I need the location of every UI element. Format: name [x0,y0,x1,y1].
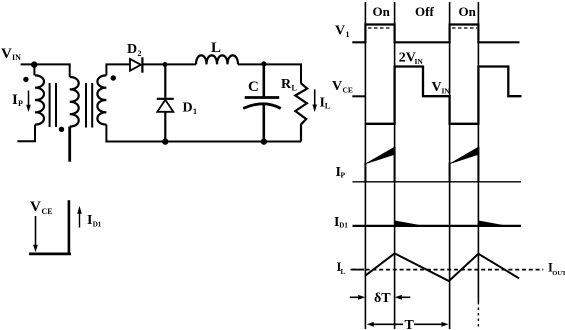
IP ramp 2 wedge [450,147,478,164]
label ID1 sketch [87,213,102,229]
IP ramp 1 fall [394,147,396,182]
svg-text:V: V [432,80,442,95]
wire secondary top lead [106,64,130,75]
svg-text:Off: Off [415,4,434,19]
wire D1 anode lead [164,65,166,98]
waveform VCE [365,67,521,124]
diode D1 [157,99,174,112]
node VIN junction [31,61,37,67]
resistor RL [295,83,307,141]
label V1 [335,24,350,40]
core lines right [85,83,93,128]
label IL [337,260,346,276]
label IL load [320,96,331,111]
svg-text:V: V [1,46,12,62]
core lines left [49,83,57,127]
svg-text:L: L [292,84,297,93]
svg-text:On: On [373,4,391,19]
label D1 [183,101,198,117]
svg-text:IN: IN [12,53,21,62]
svg-text:CE: CE [343,86,353,95]
ID1 decay wedge 2 [479,221,503,226]
dimension deltaT left arrow [350,295,365,300]
svg-text:OUT: OUT [552,270,565,277]
node after D2 [163,62,168,67]
svg-text:IN: IN [415,57,424,66]
arrow VCE down [33,216,38,252]
dashed scan line under V1 pulse 2 [452,27,477,29]
ID1 decay wedge 1 [395,221,420,226]
wire L to RL [238,64,301,83]
waveform V1 [352,25,519,43]
grid line 4 [477,2,479,328]
label ID1 [334,215,348,230]
svg-text:2: 2 [138,49,142,58]
wire D2 to L [142,63,196,65]
svg-text:D1: D1 [93,221,102,229]
axis corner VCE/ID1 sketch [29,200,71,254]
dashed scan line under V1 pulse 1 [368,27,392,29]
dimension T left arrowhead [367,322,403,327]
transformer T1 secondary winding [97,75,106,124]
label VCE [332,79,353,95]
IP ramp 1 rise [364,163,366,182]
IOUT dashed level line [352,269,543,271]
capacitor C [243,98,281,109]
svg-text:R: R [281,77,292,92]
label RL [281,77,297,93]
IP ramp 2 rise [449,163,451,182]
node C bottom [261,138,267,144]
grid line 2 [394,2,396,329]
middle winding polarity dot [59,127,64,132]
svg-text:P: P [341,171,346,180]
svg-text:L: L [325,102,330,111]
svg-text:IN: IN [442,87,451,96]
svg-text:D: D [127,42,137,57]
IP baseline [353,181,522,183]
svg-text:On: On [459,4,477,19]
wire D1 cathode lead [164,112,166,142]
wire C bottom lead [262,104,265,142]
wire top-left from VIN to middle winding [21,64,70,77]
svg-text:V: V [332,79,342,94]
svg-text:V: V [335,24,345,39]
IP ramp 2 fall [477,147,479,182]
wire primary top lead [33,65,35,76]
arrow IL down (load current) [312,89,317,112]
arrow IP down [26,91,31,113]
waveform IL triangle [365,253,519,281]
label VIN level [432,80,451,96]
transformer T1 middle winding [70,77,79,127]
primary polarity dot [23,77,28,82]
svg-text:T: T [405,318,415,330]
label VCE sketch [30,199,53,216]
svg-text:L: L [211,40,221,56]
svg-text:CE: CE [42,207,53,216]
arrow ID1 up [77,206,82,228]
svg-text:δT: δT [374,291,391,306]
svg-text:2V: 2V [399,51,416,66]
dimension deltaT right arrow [395,295,411,300]
transformer T1 primary winding [35,75,44,124]
svg-text:D: D [183,101,193,116]
svg-text:I: I [87,213,92,228]
wire C top lead [262,64,265,97]
wire middle winding bottom lead [68,127,71,162]
label VIN [1,46,21,62]
wire primary bottom lead [17,125,35,142]
svg-text:P: P [18,99,23,108]
VCE zero tick [352,95,365,97]
diode D2 [130,57,142,72]
label IP [336,165,346,180]
IP ramp 1 wedge [366,147,395,164]
secondary polarity dot [111,75,116,80]
label D2 [127,42,142,58]
node D1 bottom [162,138,168,144]
svg-text:C: C [248,79,259,95]
inductor L [196,55,238,64]
svg-text:1: 1 [193,107,197,116]
svg-text:V: V [30,199,41,215]
label IP [12,92,23,108]
svg-text:L: L [341,268,346,276]
IL axis tick [351,269,365,271]
label 2VIN [399,51,424,67]
svg-text:D1: D1 [339,222,348,230]
svg-text:1: 1 [346,30,350,39]
grid line 1 [364,2,366,329]
dimension T right arrowhead [414,322,449,327]
node after L [261,61,266,66]
label IOUT [548,260,565,277]
ID1 baseline [353,225,522,227]
grid line 3 [449,2,451,329]
wire secondary bottom lead + bottom rail [106,125,301,142]
